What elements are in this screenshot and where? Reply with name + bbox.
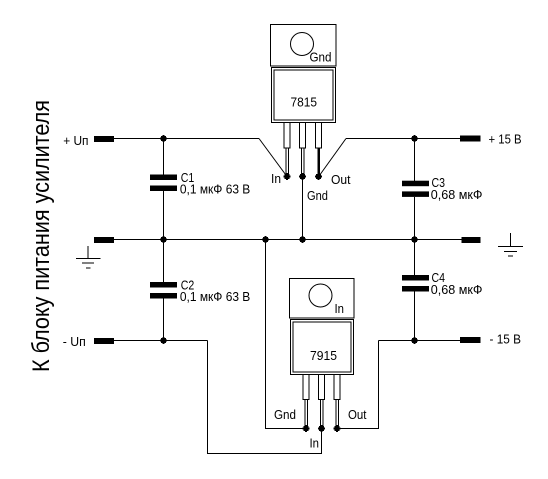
node U1 In [284,173,291,180]
capacitor C4 [402,271,483,297]
wire U2 Out pin to -15V rail [337,341,379,429]
U1 pin 1 In leg [284,123,290,177]
node +Un C1 junction [160,135,167,142]
svg-text:К блоку питания усилителя: К блоку питания усилителя [28,100,55,372]
wire ground rail [114,239,462,241]
ground symbol left [76,246,101,268]
ground symbol right [498,233,523,256]
U1 pin labels [271,172,351,203]
svg-text:+ 15 В: + 15 В [489,133,522,147]
node -Un C2 junction [160,337,167,344]
terminal ground right [462,237,481,243]
terminal -Un [63,335,114,349]
terminal -15V [460,333,521,347]
regulator U2 7915 body [291,320,354,375]
svg-text:0,68 мкФ: 0,68 мкФ [431,283,483,297]
capacitor C2 [150,279,250,305]
node ground U1 Gnd junction [299,236,306,243]
node ground C1 C2 junction [160,236,167,243]
svg-text:Out: Out [331,173,351,187]
U1 pin 2 Gnd leg [300,123,306,177]
node U2 Out [334,425,341,432]
wire +15V rail [346,138,460,140]
svg-text:In: In [310,437,320,451]
node U2 Gnd [303,425,310,432]
node ground U2 branch junction [262,236,269,243]
U2 pin 2 In leg [319,375,325,429]
svg-text:7815: 7815 [291,95,318,110]
svg-text:- Uп: - Uп [63,335,86,349]
wire -Un to U2 In pin (down right up) [208,341,322,454]
svg-text:Out: Out [348,408,367,422]
terminal ground left [94,237,114,243]
regulator U1 7815 body [272,68,336,123]
svg-text:+ Uп: + Uп [63,134,88,148]
wire C3 C4 vertical branch [414,139,416,341]
svg-text:In: In [271,172,281,186]
node U2 In [318,425,325,432]
wire -Un rail [114,340,208,342]
wire diagonal +Un to U1 In [259,139,287,177]
svg-text:- 15 В: - 15 В [490,333,522,347]
node U1 Gnd [299,173,306,180]
regulator U2 7915 tab [290,279,355,319]
wire C1 C2 vertical branch [163,139,165,341]
U2 pin 1 Gnd leg [303,375,309,429]
U2 pin 3 Out leg [334,375,340,429]
node +15V C3 junction [411,135,418,142]
capacitor C3 [402,176,483,202]
wire +Un rail [114,138,259,140]
svg-text:7915: 7915 [310,348,337,363]
node -15V C4 junction [411,337,418,344]
svg-text:Gnd: Gnd [307,189,328,203]
svg-text:Gnd: Gnd [310,51,332,65]
node ground C3 C4 junction [411,236,418,243]
svg-text:Gnd: Gnd [274,408,296,422]
wire U1 Gnd pin down to ground rail [302,177,304,240]
U2 pin labels [274,408,367,451]
label: К блоку питания усилителя [28,100,55,372]
svg-text:0,1 мкФ 63 В: 0,1 мкФ 63 В [180,290,250,304]
terminal +15V [460,133,522,147]
svg-text:0,68 мкФ: 0,68 мкФ [431,188,483,202]
wire ground rail to U2 Gnd pin [266,240,307,429]
node U1 Out [315,173,322,180]
capacitor C1 [150,171,250,197]
wire -15V rail [379,340,461,342]
svg-text:0,1 мкФ 63 В: 0,1 мкФ 63 В [180,183,250,197]
svg-text:In: In [335,302,345,316]
terminal +Un [63,134,114,148]
regulator U1 7815 tab [271,25,337,67]
wire diagonal U1 Out to +15V rail [319,139,346,177]
U1 pin 3 Out leg [316,123,322,177]
